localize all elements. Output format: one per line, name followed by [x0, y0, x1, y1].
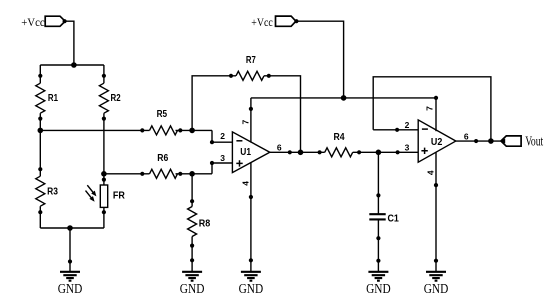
resistor R7 (feedback) — [192, 54, 300, 152]
pin dot U2 pin3 — [396, 150, 400, 154]
power tag +Vcc (center) — [251, 16, 298, 29]
wire U2 feedback loop — [373, 77, 491, 141]
junction bottom rail — [67, 225, 73, 231]
svg-text:2: 2 — [220, 131, 225, 141]
svg-text:R1: R1 — [48, 92, 58, 104]
svg-text:Vout: Vout — [525, 135, 543, 150]
junction R6/R8 — [189, 171, 195, 177]
U2 pin 7 (V+) — [424, 96, 438, 131]
svg-text:6: 6 — [277, 142, 282, 152]
svg-text:GND: GND — [424, 282, 449, 297]
wire V+ rail (U1 pin7 to U2 pin7) — [251, 97, 436, 99]
ground GND3 — [239, 272, 264, 297]
wire bridge bottom rail — [40, 228, 104, 272]
wire U2 output to Vout — [456, 140, 501, 142]
junction R7/output — [298, 150, 304, 156]
svg-text:7: 7 — [240, 119, 250, 124]
svg-text:GND: GND — [180, 282, 205, 297]
capacitor C1 — [369, 152, 399, 271]
svg-text:FR: FR — [113, 190, 125, 202]
wire to U2 pin 2 — [373, 129, 418, 131]
ground GND2 — [180, 272, 205, 297]
svg-text:7: 7 — [424, 106, 434, 111]
ground GND1 — [58, 272, 83, 297]
output tag Vout — [500, 135, 543, 150]
wire to U1 pin 2 — [212, 130, 233, 142]
svg-text:GND: GND — [366, 282, 391, 297]
svg-text:R2: R2 — [111, 92, 121, 104]
ground GND4 — [366, 272, 391, 297]
resistor R2 — [99, 65, 120, 174]
resistor R4 — [318, 131, 362, 157]
svg-text:3: 3 — [405, 143, 410, 153]
svg-text:R6: R6 — [157, 152, 168, 164]
svg-text:R3: R3 — [47, 186, 58, 198]
resistor R1 — [36, 65, 58, 130]
pin dot U1 out — [288, 150, 292, 154]
svg-text:R7: R7 — [246, 54, 256, 66]
pin dot gnd stem left — [68, 259, 72, 263]
U2 pin 4 (V-) to ground — [425, 152, 438, 272]
photoresistor FR — [86, 174, 126, 228]
resistor R6 — [140, 152, 212, 178]
node A junction — [38, 128, 44, 134]
U1 pin 7 (V+) — [240, 98, 253, 143]
svg-text:GND: GND — [239, 282, 264, 297]
wire +Vcc center to V+ rail — [296, 21, 343, 98]
wire node A rail (R1/R3 junction to R5) — [40, 129, 149, 131]
svg-text:R5: R5 — [157, 108, 168, 120]
svg-text:6: 6 — [464, 132, 469, 142]
resistor R3 — [36, 130, 58, 228]
svg-text:4: 4 — [241, 181, 251, 186]
svg-text:U1: U1 — [240, 146, 251, 158]
node B junction (R2/FR to R6) — [101, 171, 107, 177]
op-amp U2 — [418, 120, 456, 162]
svg-text:+Vcc: +Vcc — [21, 17, 45, 29]
svg-text:2: 2 — [405, 120, 410, 130]
power tag +Vcc (left) — [21, 16, 66, 29]
wire bridge top rail — [40, 64, 104, 66]
U1 pin 4 (V-) to ground — [241, 163, 253, 272]
svg-text:4: 4 — [425, 170, 435, 175]
wire U1 output rail to U2 pin 3 — [270, 151, 418, 153]
wire +Vcc left to bridge top rail — [65, 21, 74, 65]
svg-text:GND: GND — [58, 282, 83, 297]
op-amp U1 — [232, 132, 269, 173]
node junction +Vcc/bridge — [71, 62, 77, 68]
svg-text:3: 3 — [220, 153, 225, 163]
svg-text:R4: R4 — [334, 131, 345, 143]
svg-text:R8: R8 — [199, 218, 211, 230]
resistor R5 — [140, 108, 212, 135]
junction feedback/output — [488, 138, 494, 144]
svg-text:U2: U2 — [431, 136, 443, 148]
wire to U1 pin 3 — [212, 163, 233, 174]
resistor R8 — [188, 174, 211, 272]
svg-text:+Vcc: +Vcc — [251, 17, 272, 29]
svg-text:C1: C1 — [388, 212, 400, 224]
junction R5/R7 — [189, 128, 195, 134]
wire node B to R6 — [104, 173, 150, 175]
ground GND5 — [424, 272, 449, 297]
junction +Vcc/V+ rail — [341, 95, 347, 101]
junction R4/C1 — [376, 150, 382, 156]
